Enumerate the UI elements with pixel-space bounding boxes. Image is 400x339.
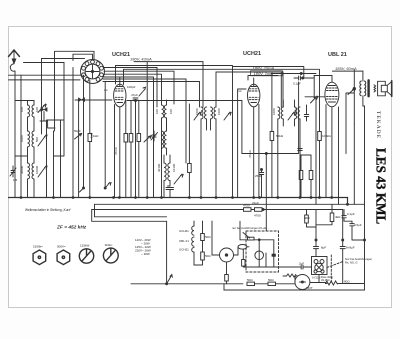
dashed option box: [246, 231, 279, 272]
output transformer T1: [360, 71, 366, 106]
wire lower loop: [224, 284, 365, 290]
wire bus3 drop to box: [265, 210, 267, 232]
left tuner coil pair row1: [15, 101, 46, 132]
IF transformer 2: [278, 100, 300, 198]
svg-text:0,5μF: 0,5μF: [354, 223, 362, 227]
wire corner drop 1: [95, 204, 167, 217]
resistor 50k: [270, 74, 274, 198]
svg-text:0,1μF: 0,1μF: [347, 212, 355, 216]
label box 180V: [251, 71, 283, 76]
wire power verticals: [315, 210, 317, 257]
svg-text:50pF: 50pF: [74, 129, 81, 133]
resistor 50 ohm c: [247, 282, 268, 285]
svg-text:30000: 30000: [20, 165, 24, 174]
wire top rectangle 2: [42, 59, 85, 135]
svg-text:UCH21: UCH21: [243, 51, 261, 57]
wire: [338, 107, 340, 204]
svg-text:50Ω: 50Ω: [205, 254, 211, 258]
svg-text:50Ω: 50Ω: [247, 278, 253, 282]
svg-text:100: 100: [35, 107, 39, 112]
knob 1 hexagon: [33, 250, 46, 265]
tube V3 UBL21: [325, 82, 339, 197]
svg-text:50Ω: 50Ω: [268, 278, 274, 282]
trimmer capacitor arrow: [139, 87, 146, 96]
resistor: [309, 155, 313, 198]
svg-text:MOT: MOT: [306, 286, 313, 290]
svg-text:50kΩ: 50kΩ: [276, 134, 284, 138]
svg-text:40Ω: 40Ω: [304, 216, 310, 220]
trimmer cap 50pF osc B: [151, 131, 158, 141]
left tuner coil pair row2 with arrows: [28, 131, 48, 163]
padder bowtie 1: [75, 98, 112, 102]
ballast hexagon: [212, 221, 238, 262]
wire top rectangle 1: [55, 51, 95, 131]
svg-text:100: 100: [169, 109, 173, 114]
tube V2 UCH21 (side view): [248, 78, 260, 198]
capacitor 25nF: [259, 169, 263, 198]
resistor: [188, 104, 192, 198]
svg-text:UBL 21: UBL 21: [328, 52, 347, 58]
svg-text:UCH21: UCH21: [112, 52, 130, 58]
svg-text:Wellenschalter in Stellung „Ku: Wellenschalter in Stellung „Kurz“: [25, 208, 71, 212]
svg-text:TEKADE: TEKADE: [375, 111, 381, 139]
trimmer arrow on osc: [75, 133, 82, 139]
svg-text:1000: 1000: [294, 108, 298, 115]
capacitor 0,5uF: [350, 221, 354, 229]
resistor in box top: [240, 221, 274, 267]
motor circle: [295, 275, 310, 290]
electrolytic 8uF: [314, 239, 319, 252]
wire blau: [271, 73, 316, 75]
misc small value labels: [0, 0, 1, 1]
svg-text:2μF: 2μF: [299, 262, 304, 266]
wire: [280, 72, 282, 107]
transformer core bar: [367, 80, 369, 96]
svg-text:4kΩ: 4kΩ: [335, 215, 341, 219]
resistor: [137, 101, 141, 198]
svg-text:500: 500: [35, 137, 39, 142]
knob 4 screw: [103, 248, 118, 263]
wire AVC mid: [242, 153, 281, 155]
capacitor C 47uF: [133, 98, 138, 198]
zigzag resistor 90 ohm: [326, 281, 338, 285]
wire socket to right nest 2: [104, 71, 174, 104]
wire plate line UBL: [332, 70, 363, 72]
resistor in box bottom: [242, 249, 245, 267]
resistor 4k: [316, 204, 334, 225]
wire small top loop: [73, 54, 93, 60]
svg-text:UY21N: UY21N: [312, 276, 320, 280]
resistor pair mid: [124, 101, 128, 198]
svg-text:50Ω: 50Ω: [205, 235, 211, 239]
left tuner coil pair row3: [28, 163, 48, 198]
knob 2 hexagon: [57, 250, 70, 265]
wire: [104, 77, 154, 198]
dashed link: [327, 262, 343, 268]
wire grid UBL: [305, 96, 325, 98]
resistor 40 ohm: [305, 210, 316, 228]
wire: [9, 74, 83, 76]
mains voltage selector wires: [131, 283, 243, 285]
wire motor left: [295, 276, 297, 277]
wire left verticals: [20, 75, 22, 197]
capacitor 0,1uF right: [342, 210, 352, 222]
svg-text:180V, 43mA: 180V, 43mA: [130, 56, 152, 61]
svg-text:1000: 1000: [217, 108, 221, 115]
resistor 4700 b: [251, 208, 262, 212]
svg-text:1,5: 1,5: [13, 178, 18, 182]
capacitor: [298, 146, 302, 153]
svg-text:47mA: 47mA: [114, 147, 118, 155]
coil L osc B: [162, 122, 167, 160]
svg-text:185V, 50mA: 185V, 50mA: [335, 66, 357, 71]
antenna symbol: [9, 50, 20, 198]
svg-text:1500k≈: 1500k≈: [33, 245, 43, 249]
svg-text:47mA: 47mA: [248, 150, 252, 158]
wire AVC line: [127, 100, 242, 102]
resistor R 1k: [88, 80, 92, 198]
svg-text:~ 30W: ~ 30W: [141, 252, 150, 256]
svg-text:1000: 1000: [272, 108, 276, 115]
diode detector arrow: [348, 89, 355, 95]
page border frame: [9, 27, 392, 308]
svg-text:UBL 21: UBL 21: [179, 239, 189, 243]
capacitor blob in box: [272, 254, 276, 257]
svg-text:rot: rot: [238, 89, 242, 93]
svg-text:UCH21: UCH21: [179, 229, 189, 233]
svg-text:8μF: 8μF: [321, 246, 326, 250]
capacitor 0,1uF top: [294, 76, 306, 80]
bus 2: [95, 203, 365, 205]
svg-text:100: 100: [155, 109, 159, 114]
bus 3: [92, 209, 343, 211]
svg-text:rot: rot: [104, 88, 108, 92]
svg-text:110k≈: 110k≈: [105, 243, 113, 247]
svg-text:UCH21: UCH21: [179, 248, 189, 252]
wire plate rect tube2: [216, 72, 283, 107]
capacitor 2uF: [297, 265, 307, 269]
svg-text:25nF: 25nF: [255, 174, 262, 178]
svg-text:1kΩ: 1kΩ: [93, 134, 99, 138]
tube V1 UCH21 (side view): [114, 77, 126, 198]
resistor 4700 a: [244, 208, 252, 212]
resistor 50 ohm d: [268, 282, 295, 285]
capacitor bottom: [166, 186, 174, 198]
rectifier UY21 block: [312, 257, 328, 283]
coil L osc A: [104, 74, 167, 197]
wire antenna bus: [24, 63, 65, 132]
wire speaker down: [364, 106, 366, 204]
zigzag resistor left of motor: [283, 274, 296, 277]
volume arrow: [311, 96, 318, 103]
svg-text:100: 100: [20, 107, 24, 112]
svg-text:100pF: 100pF: [127, 85, 136, 89]
lamp in box: [255, 240, 264, 267]
svg-text:1000: 1000: [195, 108, 199, 115]
wire: [314, 98, 316, 205]
svg-text:1000: 1000: [20, 135, 24, 142]
capacitor grid UBL: [304, 105, 308, 121]
loudspeaker LS1: [374, 81, 392, 97]
wire selector feed: [166, 221, 168, 283]
wire socket to right nest 3: [103, 79, 186, 163]
fuse in box: [238, 245, 249, 256]
tube socket U1 UCH21 (top view): [81, 60, 105, 84]
svg-text:90Ω: 90Ω: [344, 280, 350, 284]
svg-text:8+8μF: 8+8μF: [346, 246, 355, 250]
svg-text:10100: 10100: [172, 163, 176, 172]
main ground bus: [9, 198, 348, 205]
wire right verticals: [233, 67, 304, 79]
wire: [116, 66, 233, 198]
wire socket to right nest 1: [104, 68, 157, 108]
wire corner drop 2: [92, 210, 167, 222]
svg-text:Rs, NS, G: Rs, NS, G: [345, 261, 358, 265]
svg-text:30100: 30100: [157, 163, 161, 172]
IF transformer 1: [194, 107, 231, 198]
svg-text:22μF: 22μF: [252, 201, 259, 205]
switch arrow: [167, 275, 173, 284]
svg-text:LES 43 KML: LES 43 KML: [374, 148, 389, 224]
oscillator coil block C: [164, 155, 183, 198]
variable capacitor C1: [10, 156, 28, 177]
wire plate supply long line: [134, 62, 203, 107]
wire with arrow: [146, 62, 148, 198]
resistor: [299, 155, 303, 198]
resistor 100k: [124, 69, 322, 197]
svg-text:49,15Ω: 49,15Ω: [321, 278, 329, 282]
bus junction dots: [20, 197, 22, 199]
wire: [353, 124, 355, 204]
svg-text:100kΩ: 100kΩ: [322, 134, 332, 138]
wire socket to right nest 4: [103, 82, 200, 108]
wire: [9, 79, 81, 81]
svg-text:nur bei Ausführungen KL+E…: nur bei Ausführungen KL+E…: [232, 226, 269, 230]
heater chain coils: [192, 221, 202, 265]
svg-text:10000: 10000: [35, 165, 39, 174]
electrolytic 8+8uF: [340, 239, 345, 284]
svg-text:125kW: 125kW: [80, 244, 90, 248]
padder bowtie 2: [40, 108, 55, 129]
svg-text:500V≈: 500V≈: [57, 245, 66, 249]
resistor 50 ohm heater a: [201, 221, 205, 252]
svg-text:0,1μF: 0,1μF: [293, 82, 301, 86]
knob 3 screw: [79, 249, 93, 263]
resistor 50 ohm heater b: [201, 252, 205, 265]
svg-text:4700: 4700: [243, 204, 250, 208]
wire: [281, 82, 298, 154]
wire: [104, 82, 106, 189]
svg-text:ZF = 452 kHz: ZF = 452 kHz: [56, 225, 87, 231]
resistor under ballast: [225, 263, 229, 284]
svg-text:47μF: 47μF: [131, 93, 138, 97]
svg-text:4700: 4700: [254, 214, 261, 218]
